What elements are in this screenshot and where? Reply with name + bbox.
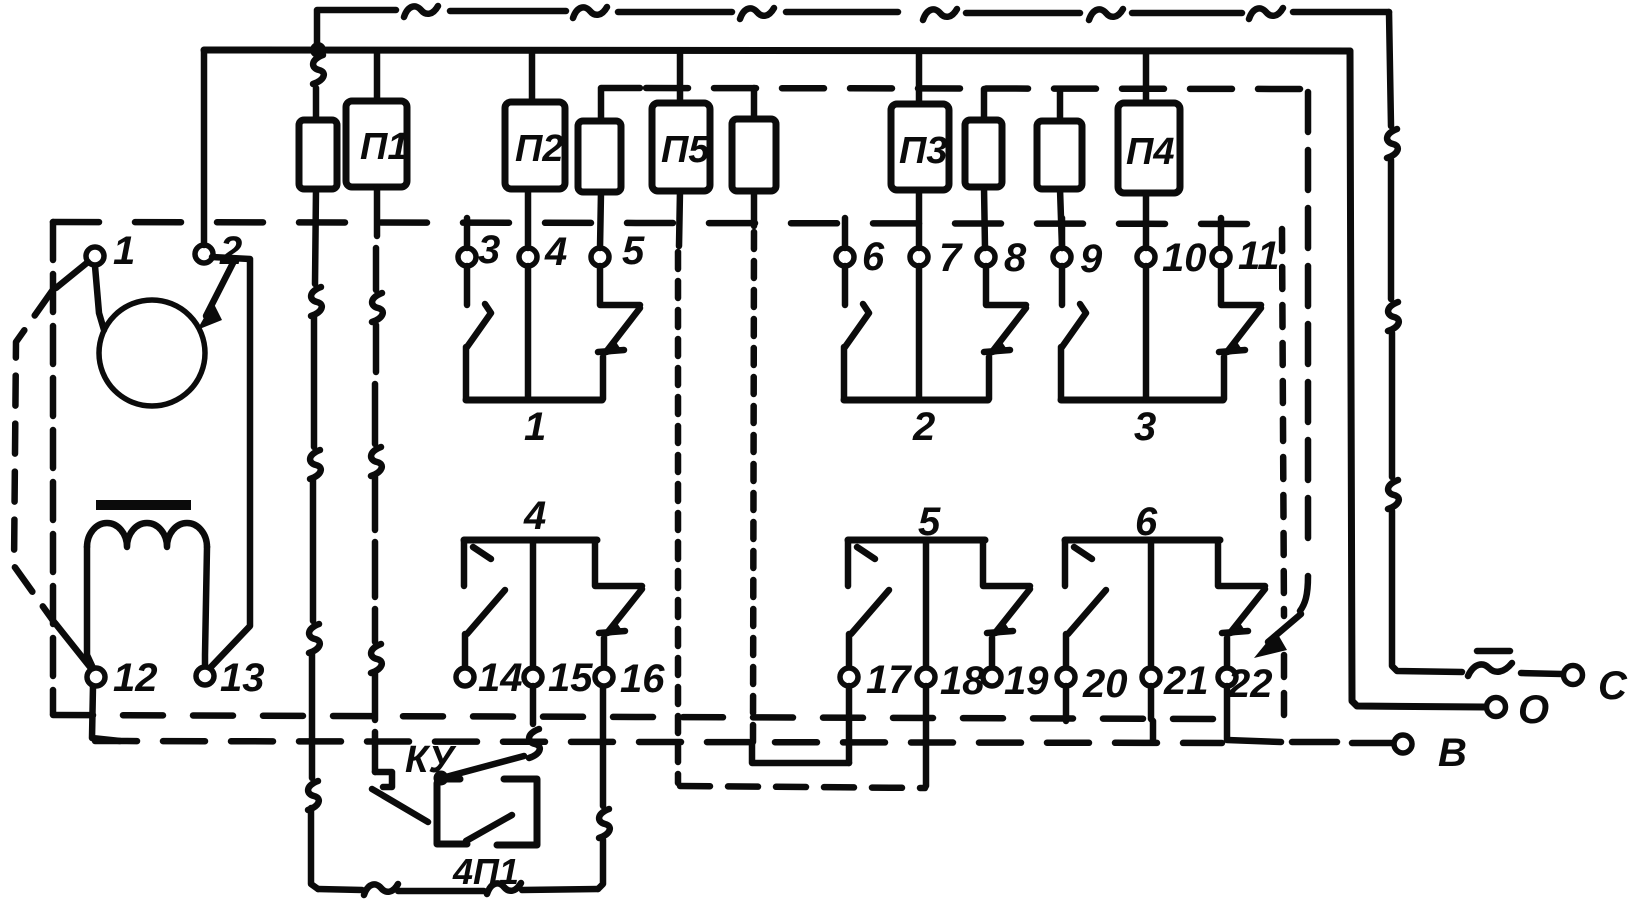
- svg-text:1: 1: [113, 229, 135, 273]
- wire: blade to terminal 17: [846, 634, 853, 667]
- contactor contact at 11: [1221, 266, 1261, 305]
- junction node at bus / line 313: [310, 42, 326, 58]
- contactor contact at 8: [986, 266, 1026, 305]
- AC mark below junction: [313, 55, 324, 84]
- wire: terminal 3 lead: [464, 266, 471, 305]
- wire: terminal 9 stub above: [1059, 218, 1066, 248]
- curved end of x=1308 dashed edge: [1300, 576, 1308, 611]
- wire: switch 2 left down: [841, 347, 848, 399]
- wire: terminal 18 lead: [923, 540, 930, 667]
- svg-text:18: 18: [940, 659, 985, 703]
- wire: terminal 12 lead down to lower boundary: [92, 686, 120, 741]
- wire: fuse R3 dashed lead down: [751, 191, 758, 226]
- svg-text:П4: П4: [1126, 131, 1174, 173]
- wire: terminal 6 stub above: [842, 218, 849, 248]
- svg-text:П1: П1: [360, 126, 408, 168]
- dashed cabinet left edge x=53: [50, 222, 57, 714]
- terminal 4: [519, 248, 537, 266]
- svg-text:17: 17: [866, 658, 912, 702]
- wire: R3 to terminal 17 link: [752, 744, 849, 763]
- terminal 20: [1057, 668, 1075, 686]
- wire: blade to terminal 14: [462, 634, 469, 667]
- terminal 8: [977, 248, 995, 266]
- terminal 10: [1137, 248, 1155, 266]
- КУ pushbutton blade: [442, 756, 524, 778]
- svg-text:13: 13: [220, 656, 265, 700]
- dashed cabinet boundary (y=222 across): [53, 222, 1280, 224]
- svg-text:10: 10: [1162, 236, 1207, 280]
- contactor contact at 16: [595, 540, 642, 586]
- fuse R2 (unlabeled): [578, 121, 621, 192]
- wire: top AC supply line: [317, 10, 1389, 52]
- wire: coil right lead to terminal 13: [205, 547, 207, 665]
- wire: switch 6 common top: [1065, 537, 1220, 544]
- wire: terminal 1 to motor: [95, 266, 104, 330]
- rest hook: [1074, 547, 1092, 559]
- wire: switch 5 common top: [848, 537, 985, 544]
- svg-text:8: 8: [1004, 236, 1027, 280]
- wire: terminal 3 stub above: [464, 218, 471, 248]
- wire: bottom AC return line: [318, 889, 598, 891]
- wire: terminal 4 through lead: [525, 192, 532, 248]
- wire: terminal 15 lead: [530, 540, 537, 667]
- svg-text:19: 19: [1004, 659, 1049, 703]
- terminal 5: [591, 248, 609, 266]
- terminal 17: [840, 668, 858, 686]
- 4П1 inner blade: [466, 815, 512, 841]
- dashed cabinet right edge x=1282: [1282, 229, 1284, 616]
- switch 1 blade: [467, 304, 491, 347]
- svg-text:4П1: 4П1: [452, 851, 519, 892]
- wire: terminal 18 lead down: [923, 686, 930, 786]
- brush arrow into motor: [197, 261, 234, 330]
- rest hook: [473, 547, 491, 559]
- wire: switch 2 common bottom: [844, 397, 988, 404]
- terminal 22: [1218, 668, 1236, 686]
- contactor contact at 5: [600, 266, 640, 305]
- svg-text:22: 22: [1227, 662, 1273, 706]
- wire: switch 1 left down: [463, 347, 470, 399]
- wire: terminal 8 lead up to fuse R4: [984, 187, 985, 248]
- switch 2 blade: [845, 304, 869, 347]
- fuse R4 (unlabeled): [965, 120, 1002, 187]
- svg-text:С: С: [1598, 664, 1628, 708]
- svg-text:3: 3: [478, 228, 500, 272]
- fuse П5: [652, 103, 710, 191]
- wire: terminal 17 lead down: [846, 686, 853, 763]
- mechanical linkage dashed bulge (levers 1-12): [14, 291, 54, 622]
- wire: terminal 20 stub below: [1063, 686, 1070, 721]
- rectified current symbol before С: [1468, 651, 1512, 676]
- terminal 15: [524, 668, 542, 686]
- rest hook: [857, 547, 875, 559]
- switch 3 blade: [1062, 304, 1086, 347]
- inductor winding (3 arcs): [87, 523, 207, 547]
- inductor core bar: [96, 500, 191, 510]
- contactor contact at 22: [1218, 540, 1265, 586]
- svg-text:В: В: [1438, 731, 1467, 775]
- AC tilde marks on top line: [404, 6, 438, 17]
- wire: R4 lead up to dashed panel line: [981, 89, 988, 120]
- fuse П4: [1118, 103, 1180, 193]
- terminal 21: [1142, 668, 1160, 686]
- switch lever at terminal 12: [55, 623, 90, 667]
- wire: blade to 4П1 lower switch: [372, 789, 428, 822]
- dashed cabinet bottom boundary y=718: [53, 715, 1225, 719]
- fuse П3: [891, 104, 949, 190]
- wire: terminal 11 stub above: [1218, 218, 1225, 248]
- wire: switch 1 common bottom: [466, 397, 602, 404]
- wire: switch 5 left drop: [845, 540, 852, 586]
- wire: switch 3 common bottom: [1061, 397, 1223, 404]
- terminal 3: [458, 248, 476, 266]
- svg-text:20: 20: [1082, 662, 1128, 706]
- wire: terminal 5 lead up to fuse R2: [600, 192, 601, 248]
- 4П1 switch enclosure: [441, 776, 460, 783]
- wire: fuse П5 dashed lead down: [679, 191, 680, 246]
- svg-text:14: 14: [478, 656, 523, 700]
- wire: П1 lead from bus: [374, 51, 381, 101]
- wire: coil left lead to terminal 12: [87, 547, 93, 668]
- svg-text:П3: П3: [899, 130, 947, 172]
- wire: terminal 10 through lead: [1143, 193, 1150, 248]
- wire: terminal 16 lead down to bottom AC line: [600, 687, 607, 806]
- svg-text:12: 12: [113, 656, 158, 700]
- wire: switch 4 left drop: [461, 540, 468, 586]
- terminal 12: [87, 668, 105, 686]
- terminal 7: [910, 248, 928, 266]
- wire: П3 lead from bus: [916, 51, 923, 104]
- svg-text:3: 3: [1134, 405, 1156, 449]
- wire: terminal 7 through lead: [916, 190, 923, 248]
- wire: outer AC right drop (to С): [1389, 12, 1462, 672]
- wire: dashed continuation to В: [1292, 739, 1337, 746]
- wire: terminal 21 lead: [1148, 540, 1155, 667]
- wire: terminal 6 lead: [842, 266, 849, 305]
- wire: П2 lead from bus: [529, 51, 536, 102]
- wire: lead bus to fuse R1: [313, 88, 320, 120]
- wire: switch 6 left drop: [1062, 540, 1069, 586]
- svg-text:11: 11: [1238, 234, 1280, 278]
- switch lever at terminal 1: [56, 262, 88, 288]
- wire: bus left drop to terminal 2: [201, 50, 208, 245]
- wire: terminal 22 lead to В line: [1227, 686, 1281, 742]
- terminal 9: [1053, 248, 1071, 266]
- fuse П2: [505, 102, 565, 189]
- svg-text:4: 4: [544, 230, 567, 274]
- terminal 11: [1212, 248, 1230, 266]
- svg-text:О: О: [1518, 688, 1549, 732]
- КУ pushbutton fixed contact hook: [375, 772, 392, 787]
- fuse П1: [346, 101, 407, 187]
- wire: main horizontal bus: [204, 50, 1350, 51]
- wire: П4 lead from bus: [1143, 51, 1150, 103]
- svg-text:15: 15: [548, 656, 593, 700]
- fuse R1 (unlabeled): [299, 120, 337, 189]
- switch 4 blade: [467, 590, 505, 634]
- svg-text:П2: П2: [515, 128, 563, 170]
- terminal 19: [983, 668, 1001, 686]
- terminal С: [1564, 666, 1583, 685]
- wire: R5 lead up to dashed panel line: [1057, 89, 1064, 121]
- wire: bus right drop (to О): [1350, 51, 1484, 707]
- П1 feeder line x=376 with AC marks: [375, 187, 377, 772]
- svg-text:7: 7: [939, 236, 963, 280]
- terminal 16: [595, 668, 613, 686]
- svg-text:16: 16: [620, 657, 665, 701]
- contactor contact at 19: [983, 540, 1030, 586]
- wire: terminal 9 lead up to fuse R5: [1060, 189, 1062, 248]
- fuse R3 (unlabeled): [732, 119, 776, 191]
- wire: terminal 21 jog to lower boundary: [1151, 686, 1153, 742]
- svg-text:4: 4: [523, 494, 546, 538]
- wire: П5 to terminal 18 dashed link y=787: [680, 786, 925, 788]
- wire: switch 3 left down: [1058, 347, 1065, 399]
- switch 5 blade: [851, 590, 889, 634]
- svg-text:9: 9: [1080, 237, 1103, 281]
- wire: П5 lead from bus: [677, 51, 684, 103]
- terminal В: [1394, 735, 1412, 753]
- svg-text:П5: П5: [661, 129, 710, 171]
- terminal 1: [86, 247, 104, 265]
- svg-text:2: 2: [912, 405, 935, 449]
- motor (armature circle): [99, 300, 205, 406]
- fuse R5 (unlabeled): [1037, 121, 1082, 189]
- terminal 13: [196, 667, 214, 685]
- svg-text:1: 1: [524, 405, 546, 449]
- terminal 14: [456, 668, 474, 686]
- vertical feeder line x=315 with AC marks: [311, 189, 318, 889]
- mechanical link arrow to contact 6: [1254, 614, 1301, 658]
- dashed panel boundary right edge x=1308: [1305, 92, 1312, 556]
- dashed lower boundary y=743 to B: [95, 741, 1222, 743]
- wire: switch 4 common top: [464, 537, 597, 544]
- terminal О: [1487, 698, 1506, 717]
- wire: R2 lead to dashed panel line: [601, 88, 640, 121]
- dashed inner panel boundary (upper, y=88): [646, 88, 1307, 89]
- terminal 2: [195, 245, 213, 263]
- terminal 6: [836, 248, 854, 266]
- wire: terminal 2 to commutator column: [210, 257, 250, 668]
- wire: terminal 15 lead down to КУ: [530, 686, 537, 724]
- switch 6 blade: [1068, 590, 1106, 634]
- wire: terminal 9 lead: [1059, 266, 1066, 305]
- svg-text:21: 21: [1163, 659, 1209, 703]
- svg-text:6: 6: [862, 235, 885, 279]
- wire: blade to terminal 20: [1063, 634, 1070, 667]
- svg-text:5: 5: [622, 229, 645, 273]
- terminal 18: [917, 668, 935, 686]
- wire: R3 lead up to dashed panel line: [751, 88, 758, 119]
- wire: symbol to С: [1521, 673, 1562, 674]
- junction node at 4П1: [434, 771, 449, 786]
